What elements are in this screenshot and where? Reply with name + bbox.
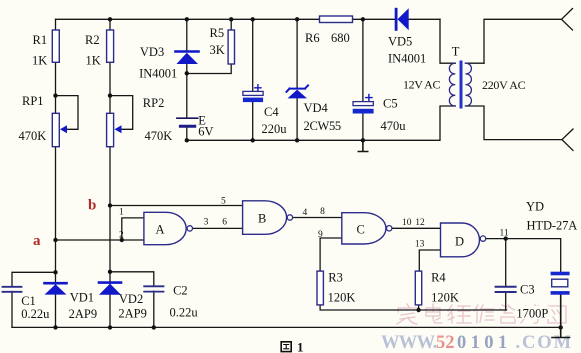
svg-text:470K: 470K: [19, 129, 47, 143]
wire piezo bottom terminal: [552, 295, 570, 338]
pin 8: [320, 207, 325, 217]
label R3: [328, 271, 356, 305]
label R5: [210, 26, 225, 57]
wire gate A output to gate B input 6: [193, 227, 243, 229]
svg-text:13: 13: [415, 239, 425, 249]
wire transformer secondary bottom to 220V terminal: [466, 106, 563, 140]
wire C4 column: [252, 19, 254, 140]
svg-text:3: 3: [204, 218, 209, 228]
wire R5 column: [187, 19, 231, 73]
svg-text:3K: 3K: [210, 43, 225, 57]
svg-text:220u: 220u: [262, 122, 288, 136]
diode VD3: [176, 52, 199, 65]
wire node a to gate A input 2: [56, 239, 144, 241]
wire gate C input 9 from R3: [320, 238, 342, 271]
resistor R3: [317, 271, 323, 305]
svg-text:b: b: [88, 198, 96, 214]
pin 12: [415, 218, 425, 228]
svg-text:D: D: [455, 235, 464, 249]
svg-text:VD4: VD4: [304, 101, 329, 115]
wire C1 branch: [12, 272, 56, 327]
wire VD5 to transformer primary top: [440, 19, 455, 63]
svg-text:VD5: VD5: [388, 35, 412, 49]
resistor R1: [52, 30, 59, 62]
label gate A: [156, 223, 165, 237]
label VD3: [139, 45, 177, 81]
label VD4: [304, 101, 341, 133]
label C5: [381, 97, 407, 134]
pin 4: [303, 208, 308, 218]
svg-text:4: 4: [303, 208, 308, 218]
zener diode VD4: [287, 85, 309, 98]
label RP2: [143, 96, 172, 143]
svg-text:11: 11: [500, 228, 509, 238]
wire gate D output pin 11 to piezo: [486, 239, 561, 272]
svg-text:470K: 470K: [145, 129, 173, 143]
wire R3 R4 C3 bottom net: [320, 305, 507, 310]
wire gate B output to gate C input 8: [293, 217, 342, 219]
pin 5: [221, 197, 226, 207]
pin 13: [415, 239, 425, 249]
wire top rail: [56, 18, 441, 20]
svg-text:R5: R5: [210, 26, 225, 40]
svg-text:R1: R1: [33, 33, 48, 47]
transformer T secondary winding: [466, 63, 472, 106]
transformer T core: [460, 62, 463, 107]
label R6: [305, 31, 350, 45]
wire C2 branch: [110, 272, 154, 328]
svg-text:HTD-27A: HTD-27A: [527, 219, 578, 233]
svg-text:C: C: [357, 223, 365, 237]
label R2: [85, 33, 101, 68]
label C3: [515, 283, 549, 321]
node b: [88, 198, 96, 214]
label gate C: [357, 223, 365, 237]
wire transformer secondary top stub: [466, 62, 485, 64]
svg-text:YD: YD: [526, 200, 544, 214]
svg-text:12V AC: 12V AC: [403, 78, 440, 92]
nand gate D: [441, 223, 486, 257]
capacitor C3: [496, 287, 516, 292]
nand gate C: [342, 213, 392, 244]
svg-text:5: 5: [221, 197, 226, 207]
diode VD2: [99, 283, 121, 295]
label C1: [21, 294, 50, 321]
watermark url row: [381, 333, 573, 353]
diode VD5: [395, 8, 409, 31]
capacitor C5: [353, 95, 374, 114]
svg-text:120K: 120K: [431, 290, 459, 304]
transformer T primary winding: [449, 63, 455, 106]
220V AC bottom terminal chevron: [562, 129, 573, 151]
label E battery: [198, 113, 213, 138]
svg-text:52: 52: [436, 333, 455, 353]
label gate B: [258, 212, 266, 226]
svg-text:0.22u: 0.22u: [21, 307, 50, 321]
svg-text:0101: 0101: [457, 333, 512, 353]
resistor R6: [320, 16, 353, 23]
svg-text:C5: C5: [383, 97, 398, 111]
svg-text:8: 8: [320, 207, 325, 217]
wire C3 branch from node 11: [505, 239, 507, 310]
label YD: [526, 200, 577, 233]
svg-text:1K: 1K: [32, 54, 47, 68]
svg-text:VD2: VD2: [119, 292, 143, 306]
svg-text:C1: C1: [21, 294, 36, 308]
wire VD3 battery column: [186, 19, 188, 140]
svg-text:12: 12: [415, 218, 425, 228]
svg-text:470u: 470u: [381, 119, 407, 133]
svg-text:R3: R3: [328, 271, 343, 285]
capacitor C1: [3, 287, 22, 292]
wire gate D input 13 from R4: [419, 250, 440, 271]
svg-text:WWW.: WWW.: [381, 333, 437, 353]
potentiometer RP1: [52, 113, 67, 146]
resistor R5: [228, 30, 234, 64]
svg-text:6: 6: [222, 218, 227, 228]
svg-text:C4: C4: [264, 105, 279, 119]
svg-text:2AP9: 2AP9: [118, 307, 146, 321]
label C2: [170, 284, 199, 320]
wire RP2 wiper tap: [110, 96, 133, 130]
wire RP1 wiper tap: [56, 96, 79, 130]
svg-text:IN4001: IN4001: [388, 52, 426, 66]
label R4: [431, 271, 459, 305]
svg-text:.COM: .COM: [516, 333, 573, 353]
svg-text:VD3: VD3: [140, 45, 164, 59]
nand gate B: [243, 201, 293, 235]
pin 1: [119, 208, 124, 218]
caption 图 1: [281, 342, 291, 352]
capacitor C2: [144, 286, 163, 291]
wire gate C output to gate D input 12: [392, 227, 441, 229]
wire VD4 column: [296, 19, 298, 140]
svg-text:9: 9: [318, 230, 323, 240]
node a: [33, 233, 41, 249]
label R1: [32, 33, 47, 68]
svg-text:1700P: 1700P: [516, 307, 548, 321]
label gate D: [455, 235, 464, 249]
svg-text:B: B: [258, 212, 266, 226]
220V AC top terminal chevron: [562, 9, 573, 31]
label VD1: [69, 290, 97, 321]
nand gate A: [144, 212, 193, 244]
svg-text:2: 2: [119, 231, 124, 241]
svg-text:A: A: [156, 223, 165, 237]
svg-text:RP2: RP2: [143, 96, 165, 110]
wire main bottom rail: [12, 326, 561, 328]
svg-text:6V: 6V: [198, 124, 213, 138]
watermark chinese text row: [397, 304, 566, 324]
diode VD1: [45, 283, 67, 294]
svg-text:a: a: [33, 233, 41, 249]
wire gate A input tie pin1: [122, 218, 144, 240]
label C4: [262, 105, 288, 136]
label VD5: [388, 35, 426, 66]
svg-text:IN4001: IN4001: [139, 67, 177, 81]
label VD2: [118, 292, 146, 321]
label 220V AC: [482, 78, 526, 92]
svg-text:680: 680: [331, 31, 350, 45]
wire R2 column: [109, 19, 111, 327]
svg-text:1K: 1K: [86, 54, 101, 68]
pin 10: [402, 218, 412, 228]
capacitor C4: [243, 85, 263, 102]
svg-text:T: T: [452, 45, 460, 59]
svg-text:220V AC: 220V AC: [482, 78, 526, 92]
wire node b to gate B input 5: [110, 205, 243, 207]
pin 2: [119, 231, 124, 241]
pin 3: [204, 218, 209, 228]
ground symbol below C5: [358, 140, 367, 151]
resistor R4: [415, 271, 421, 305]
battery E: [177, 118, 198, 126]
resistor R2: [107, 30, 114, 62]
svg-text:VD1: VD1: [70, 290, 94, 304]
svg-text:RP1: RP1: [22, 94, 44, 108]
svg-text:R6: R6: [305, 31, 320, 45]
svg-text:R2: R2: [85, 33, 100, 47]
potentiometer RP2: [107, 113, 122, 146]
label RP1: [19, 94, 47, 143]
pin 9: [318, 230, 323, 240]
piezo sounder YD: [551, 272, 570, 295]
svg-text:C3: C3: [520, 283, 535, 297]
svg-text:0.22u: 0.22u: [170, 305, 199, 319]
svg-text:R4: R4: [431, 271, 446, 285]
label T: [452, 45, 460, 59]
pin 6: [222, 218, 227, 228]
wire C5 column: [362, 19, 364, 140]
svg-text:1: 1: [297, 340, 304, 353]
svg-text:C2: C2: [173, 284, 188, 298]
svg-text:1: 1: [119, 208, 124, 218]
svg-text:2CW55: 2CW55: [304, 119, 341, 133]
wire R1 column: [55, 19, 57, 327]
svg-text:2AP9: 2AP9: [69, 307, 97, 321]
label 12V AC: [403, 78, 440, 92]
wire top rail right section to 220V terminal: [484, 19, 562, 63]
pin 11: [500, 228, 509, 238]
svg-text:120K: 120K: [328, 290, 356, 304]
wire transformer primary bottom to mid rail: [187, 106, 456, 140]
svg-text:10: 10: [402, 218, 412, 228]
